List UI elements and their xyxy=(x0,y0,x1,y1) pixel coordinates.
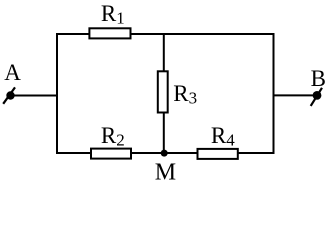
svg-text:B: B xyxy=(311,66,326,91)
svg-text:A: A xyxy=(4,60,21,85)
svg-text:M: M xyxy=(155,160,176,186)
